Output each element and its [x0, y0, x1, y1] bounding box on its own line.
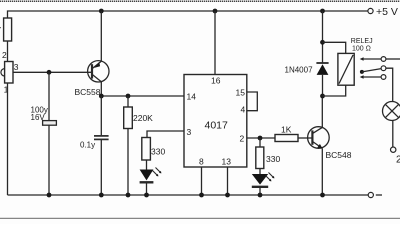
relay K1 coil body — [338, 53, 354, 85]
resistor R4 330 body — [256, 147, 264, 169]
lamp L1 body — [383, 102, 400, 121]
wire: +5V top rail — [8, 11, 368, 18]
wire: pin 2 out to junction — [247, 137, 275, 139]
terminal: top contact circle — [381, 57, 386, 62]
terminal: 0V open circle — [368, 192, 373, 197]
svg-text:RELEJ: RELEJ — [351, 38, 373, 45]
diode D3 1N4007 triangle — [317, 64, 329, 75]
wire: relay column from +5V rail — [322, 11, 324, 63]
terminal: middle contact circle — [381, 66, 386, 71]
svg-text:13: 13 — [222, 156, 232, 166]
relay contact pivot dot — [360, 70, 364, 74]
wire: top contact line — [363, 58, 382, 60]
node: top rail junction at relay column — [320, 9, 325, 14]
wire: collector node to IC pin 14 — [101, 95, 184, 97]
resistor R4 330 (right LED): top lead — [259, 138, 261, 147]
svg-text:8: 8 — [199, 156, 204, 166]
node: junction pin2/R4/R5 — [258, 136, 263, 141]
wire: R2 bottom lead to 0V rail — [127, 129, 129, 196]
wire: 0V bottom rail — [8, 194, 369, 196]
svg-text:220 V: 220 V — [396, 155, 400, 166]
wire: bottom contact line — [363, 76, 382, 78]
node: junction collector / C2 — [99, 94, 104, 99]
svg-text:1K: 1K — [281, 125, 292, 135]
LED D1 cathode bar — [140, 181, 154, 183]
relay contact fixed tip (bottom) — [360, 75, 364, 78]
lamp L1 cross — [385, 104, 398, 117]
LED D1 triangle — [140, 170, 154, 181]
sensor B1 lens bulge — [1, 69, 5, 76]
svg-text:330: 330 — [266, 154, 280, 164]
svg-text:1N4007: 1N4007 — [285, 65, 314, 74]
resistor R2 220K body — [124, 107, 133, 129]
sensor B1 (3-pin receiver, body) — [5, 62, 13, 84]
capacitor C1 100y/16V electrolytic: top lead — [48, 72, 50, 120]
node: junction at C1 tap — [47, 70, 52, 75]
transistor Q2 BC548 body — [308, 127, 330, 149]
relay contact fixed tip (top) — [360, 57, 364, 60]
wire: C1 bottom lead to 0V rail — [48, 125, 50, 195]
svg-text:15: 15 — [236, 88, 246, 98]
wire: pin 8 to 0V rail — [201, 167, 203, 195]
LED D2 light arrows — [266, 173, 275, 182]
bottom page border (dashed gray) — [0, 217, 400, 219]
svg-text:3: 3 — [187, 127, 192, 137]
wire: diode anode down to relay bottom tap and Q2 collector — [322, 75, 324, 96]
terminal: +5V open circle — [368, 8, 373, 13]
wire: R4 to LED2 — [259, 169, 261, 175]
svg-text:2: 2 — [2, 50, 7, 60]
svg-text:+5 V: +5 V — [376, 6, 398, 18]
wire: minus dash after 0V terminal — [376, 194, 382, 196]
terminal: bottom contact circle — [381, 75, 386, 80]
relay K1 coil diagonal — [339, 55, 353, 84]
svg-text:4: 4 — [241, 105, 246, 115]
transistor Q1 collector — [92, 74, 101, 82]
LED D1 light arrows — [153, 168, 162, 177]
wire: lamp to terminal — [392, 121, 394, 148]
resistor R2 220K: top lead — [127, 96, 129, 107]
wire: top contact to page edge — [386, 58, 400, 60]
wire: middle contact to lamp — [386, 68, 393, 101]
resistor R5 1K body — [275, 135, 298, 142]
wire: pin 3 to R3 — [147, 131, 184, 138]
svg-text:220K: 220K — [133, 113, 153, 123]
top page border (dashed) — [0, 0, 400, 2]
transistor Q2 emitter with NPN arrow — [312, 141, 322, 148]
LED D2 cathode bar — [252, 186, 268, 188]
wire: LED2 to 0V rail — [259, 188, 261, 195]
node: junction relay bottom tap — [320, 94, 325, 99]
wire: LED1 to 0V rail — [146, 184, 148, 196]
wire: pin 13 to 0V rail — [227, 167, 229, 195]
svg-text:100 Ω: 100 Ω — [352, 45, 371, 52]
svg-text:2: 2 — [240, 133, 245, 143]
transistor Q1 emitter (to +5V) with PNP arrow — [92, 61, 101, 69]
transistor Q1 base bar — [91, 64, 93, 78]
wire: C2 bottom lead to 0V rail — [100, 139, 102, 195]
IC U1 4017 body — [184, 75, 247, 168]
wire: sensor pin1 down to 0V rail — [7, 83, 9, 195]
node: top rail junction at BC558 emitter — [99, 9, 104, 14]
svg-text:BC548: BC548 — [326, 150, 352, 160]
transistor Q2 base bar — [311, 130, 313, 144]
wire: R1 bottom to sensor pin2 — [7, 41, 9, 62]
resistor R1 (top-left, value cut off) — [4, 18, 12, 41]
wire: pin 16 to +5V rail — [214, 11, 216, 75]
node: 0V junctions — [47, 193, 52, 198]
capacitor C2 0.1y: top lead — [100, 96, 102, 135]
capacitor C1 plate — [43, 121, 57, 126]
diode D3 1N4007 cathode bar — [316, 62, 328, 64]
wire: sensor pin3 to BC558 base — [13, 71, 92, 73]
svg-text:0.1y: 0.1y — [80, 140, 95, 149]
wire: R3 to LED1 — [146, 160, 148, 170]
node: top rail junction at pin16 — [213, 9, 218, 14]
capacitor C2 plates — [94, 135, 109, 137]
svg-text:BC558: BC558 — [75, 87, 101, 97]
wire: R5 to BC548 base — [298, 137, 312, 139]
wire: relay bottom tap — [323, 85, 346, 96]
wire: pin 15 to pin 4 strap — [247, 92, 257, 111]
transistor Q1 BC558 body — [88, 61, 109, 82]
svg-text:4017: 4017 — [205, 120, 229, 132]
terminal: lamp output circle — [391, 147, 396, 152]
svg-text:16: 16 — [211, 76, 221, 86]
svg-text:330: 330 — [151, 146, 165, 156]
transistor Q2 collector — [312, 127, 322, 133]
node: junction relay top tap — [320, 40, 325, 45]
resistor R3 330 (left LED) body — [142, 138, 151, 161]
svg-text:3: 3 — [14, 62, 19, 72]
svg-text:14: 14 — [187, 92, 197, 102]
wire: relay top tap — [323, 42, 346, 53]
LED D2 triangle — [252, 174, 268, 185]
node: junction 220K top — [126, 94, 131, 99]
wire: moving arm diagonal — [362, 69, 381, 72]
svg-text:16V: 16V — [31, 113, 46, 122]
